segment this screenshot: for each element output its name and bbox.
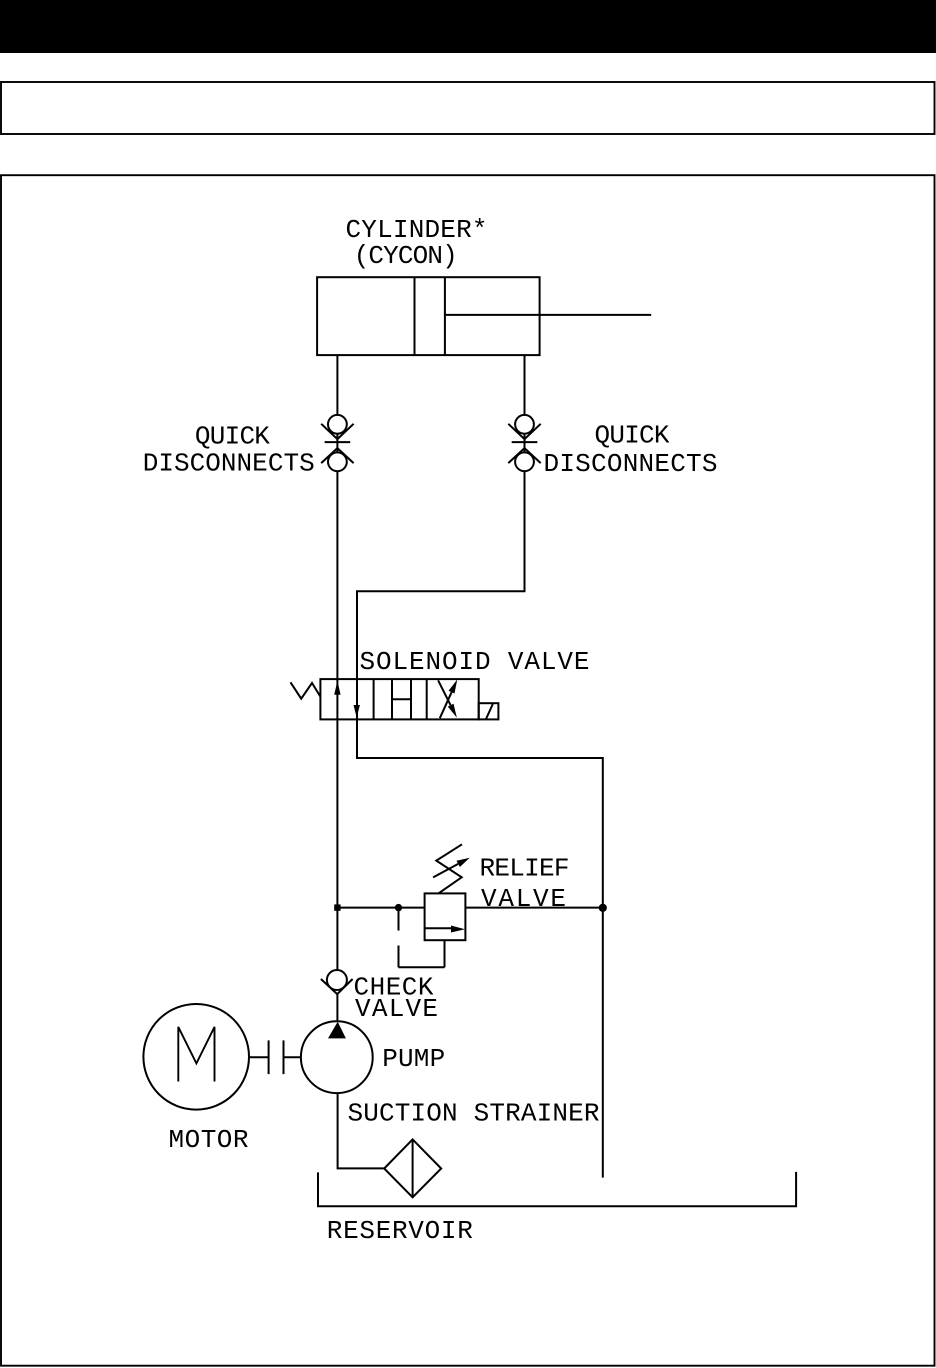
wire right QD jog through valve to return line: [357, 471, 603, 1177]
valve solenoid diagonal: [486, 704, 493, 719]
relief valve internal arrow: [425, 926, 465, 933]
svg-text:DISCONNECTS: DISCONNECTS: [544, 449, 718, 479]
junction square node: [334, 904, 340, 910]
pump circle: [301, 1021, 373, 1093]
suction strainer diamond: [384, 1139, 441, 1197]
cylinder piston line 1: [414, 277, 416, 355]
reservoir: [318, 1172, 796, 1206]
wire cylinder left port down: [336, 355, 338, 415]
coupling shaft right: [284, 1056, 301, 1058]
svg-text:QUICK: QUICK: [195, 422, 270, 452]
quick disconnect left: [321, 415, 353, 471]
cylinder rod: [445, 314, 651, 316]
relief valve box: [425, 893, 466, 940]
junction dot return: [599, 904, 607, 912]
wire check valve to pump: [336, 994, 338, 1021]
wire cylinder right port down: [524, 355, 526, 415]
valve divider 2: [426, 679, 428, 719]
wire left QD through valve to check valve: [336, 471, 338, 970]
valve X arrow B: [438, 680, 457, 717]
svg-text:RELIEF: RELIEF: [480, 854, 570, 884]
svg-text:PUMP: PUMP: [382, 1044, 445, 1074]
svg-text:(CYCON): (CYCON): [354, 241, 458, 271]
coupling shaft left: [249, 1056, 269, 1058]
relief line right: [465, 907, 602, 909]
strainer internal line: [412, 1139, 414, 1197]
valve left envelope up arrow: [334, 681, 340, 695]
top black title bar: [0, 0, 936, 53]
relief pilot dashed line: [399, 911, 445, 968]
valve divider 1: [373, 679, 375, 719]
valve center H crossbar: [392, 698, 411, 700]
svg-text:QUICK: QUICK: [595, 421, 670, 451]
svg-text:RESERVOIR: RESERVOIR: [327, 1216, 473, 1246]
svg-text:VALVE: VALVE: [481, 884, 566, 914]
svg-text:MOTOR: MOTOR: [169, 1125, 249, 1155]
svg-text:SOLENOID VALVE: SOLENOID VALVE: [360, 647, 590, 677]
empty header box: [1, 82, 935, 134]
valve solenoid box: [479, 703, 499, 719]
quick disconnect right: [508, 415, 540, 471]
motor M glyph: [178, 1027, 214, 1082]
coupling tick 1: [268, 1040, 270, 1074]
cylinder body: [317, 277, 539, 355]
pump triangle: [328, 1022, 346, 1039]
wire pump to strainer: [338, 1093, 385, 1168]
check valve: [321, 970, 353, 994]
cylinder piston line 2: [444, 277, 446, 355]
coupling tick 2: [283, 1040, 285, 1074]
valve X arrow A: [440, 679, 458, 718]
motor circle: [143, 1004, 249, 1110]
valve center H vertical 2: [410, 679, 412, 719]
solenoid valve body: [320, 679, 478, 719]
relief line left: [337, 907, 425, 909]
svg-text:VALVE: VALVE: [355, 994, 438, 1024]
svg-text:SUCTION STRAINER: SUCTION STRAINER: [348, 1099, 600, 1129]
relief valve spring: [436, 844, 462, 893]
svg-text:DISCONNECTS: DISCONNECTS: [143, 449, 315, 479]
junction dot pilot: [395, 904, 402, 911]
valve left envelope down arrow: [354, 705, 360, 718]
valve center H vertical 1: [391, 679, 393, 719]
relief valve adjust arrow: [433, 858, 470, 878]
valve spring: [291, 682, 321, 698]
